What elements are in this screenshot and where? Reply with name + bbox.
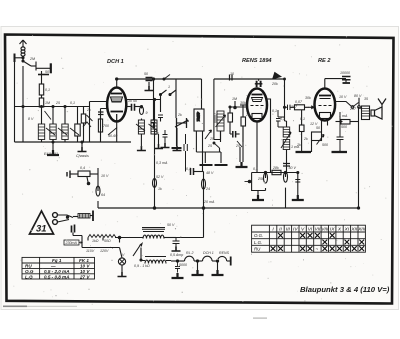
- svg-text:0,1: 0,1: [45, 88, 50, 92]
- svg-text:31: 31: [36, 224, 47, 235]
- svg-text:207: 207: [290, 105, 298, 109]
- svg-text:0,5 Amp: 0,5 Amp: [170, 253, 183, 257]
- svg-text:50Ω: 50Ω: [104, 239, 111, 243]
- svg-text:FK 1: FK 1: [79, 258, 89, 263]
- svg-text:25: 25: [55, 101, 60, 105]
- svg-text:RU: RU: [25, 264, 32, 269]
- svg-text:0,1: 0,1: [253, 167, 258, 171]
- svg-text:0,3 mA: 0,3 mA: [156, 161, 168, 165]
- svg-text:III: III: [286, 227, 291, 233]
- svg-text:Fg 1: Fg 1: [52, 258, 62, 263]
- svg-text:70000: 70000: [214, 113, 218, 123]
- svg-text:DCH 1: DCH 1: [203, 251, 214, 255]
- svg-text:2k: 2k: [177, 113, 182, 117]
- svg-text:500: 500: [322, 143, 328, 147]
- svg-text:25: 25: [207, 144, 212, 148]
- svg-text:0,1: 0,1: [300, 117, 305, 121]
- svg-text:1M: 1M: [232, 97, 237, 101]
- svg-text:50 V: 50 V: [167, 223, 175, 227]
- svg-text:XII: XII: [350, 227, 358, 233]
- svg-text:10: 10: [230, 72, 234, 76]
- svg-text:VII: VII: [314, 227, 321, 233]
- svg-text:0,07: 0,07: [295, 100, 303, 104]
- svg-text:30k: 30k: [240, 101, 246, 105]
- svg-text:8 V: 8 V: [28, 117, 34, 121]
- svg-text:0,1: 0,1: [280, 117, 285, 121]
- svg-text:207: 207: [349, 107, 357, 111]
- svg-text:XIII: XIII: [357, 227, 366, 233]
- svg-text:0,1: 0,1: [186, 167, 191, 171]
- svg-text:Blaupunkt 3 & 4 (110 V=): Blaupunkt 3 & 4 (110 V=): [300, 285, 390, 294]
- svg-text:120V: 120V: [100, 249, 109, 253]
- svg-text:35: 35: [364, 97, 368, 101]
- svg-text:IX: IX: [330, 227, 335, 233]
- svg-text:50: 50: [144, 72, 148, 76]
- svg-text:~: ~: [316, 246, 319, 251]
- svg-text:50: 50: [316, 126, 320, 130]
- svg-text:28k: 28k: [272, 166, 279, 170]
- svg-text:41561: 41561: [196, 112, 200, 122]
- svg-text:52 V: 52 V: [156, 175, 164, 179]
- svg-text:48 V: 48 V: [206, 171, 214, 175]
- svg-text:1k: 1k: [158, 187, 162, 191]
- svg-text:110V: 110V: [86, 249, 95, 253]
- svg-text:25: 25: [209, 137, 214, 141]
- svg-text:20k: 20k: [271, 82, 278, 86]
- svg-text:230mA: 230mA: [65, 241, 78, 245]
- svg-text:0,1: 0,1: [70, 101, 75, 105]
- svg-text:2k: 2k: [86, 108, 91, 112]
- svg-text:10 V: 10 V: [80, 269, 90, 274]
- svg-text:VIII: VIII: [321, 227, 329, 233]
- svg-text:50 V: 50 V: [289, 166, 297, 170]
- svg-text:50: 50: [133, 99, 137, 103]
- svg-text:700: 700: [103, 124, 109, 128]
- svg-text:O.G.: O.G.: [254, 233, 263, 238]
- svg-text:DCH 1: DCH 1: [107, 59, 124, 65]
- svg-text:RU: RU: [254, 246, 261, 251]
- svg-text:500: 500: [341, 125, 347, 129]
- svg-text:50: 50: [45, 70, 49, 74]
- svg-text:20 mA: 20 mA: [203, 200, 215, 204]
- svg-text:10 V: 10 V: [101, 174, 109, 178]
- svg-text:1 mA: 1 mA: [339, 114, 348, 118]
- svg-text:XI: XI: [344, 227, 350, 233]
- svg-text:RE 2: RE 2: [318, 58, 331, 64]
- svg-text:40-60: 40-60: [108, 134, 117, 138]
- svg-text:0,5 - 2,0 mA: 0,5 - 2,0 mA: [44, 269, 70, 274]
- svg-text:25: 25: [235, 144, 240, 148]
- svg-text:0,4: 0,4: [80, 166, 85, 170]
- svg-text:VI: VI: [308, 227, 313, 233]
- svg-text:E/UM 91: E/UM 91: [44, 152, 58, 156]
- svg-text:2k: 2k: [245, 113, 250, 117]
- svg-text:1: 1: [168, 85, 170, 89]
- svg-text:O.G: O.G: [25, 269, 34, 274]
- svg-text:2M: 2M: [29, 57, 35, 61]
- svg-text:64: 64: [101, 193, 105, 197]
- svg-text:RENS 1894: RENS 1894: [242, 58, 272, 64]
- svg-text:IV: IV: [293, 227, 298, 233]
- svg-text:2k: 2k: [303, 137, 308, 141]
- svg-text:10000: 10000: [340, 71, 350, 75]
- svg-text:L.G.: L.G.: [254, 240, 262, 245]
- svg-text:9: 9: [146, 111, 148, 115]
- svg-text:24: 24: [205, 187, 210, 191]
- svg-text:RL 2: RL 2: [186, 251, 194, 255]
- svg-text:25: 25: [154, 132, 159, 136]
- svg-text:0,1: 0,1: [272, 109, 277, 113]
- svg-text:10 V: 10 V: [80, 264, 90, 269]
- svg-text:2k: 2k: [296, 143, 301, 147]
- svg-text:5000: 5000: [179, 263, 187, 267]
- svg-text:30k: 30k: [305, 96, 311, 100]
- svg-text:27 V: 27 V: [79, 274, 90, 279]
- svg-text:L.G: L.G: [25, 274, 33, 279]
- svg-text:80 V: 80 V: [354, 94, 362, 98]
- svg-text:25k: 25k: [257, 177, 264, 181]
- svg-text:1M: 1M: [45, 101, 50, 105]
- svg-text:0,9 - 1 kΩ: 0,9 - 1 kΩ: [134, 264, 150, 268]
- svg-text:10 V: 10 V: [339, 95, 347, 99]
- svg-text:0,5 - 0,8 mA: 0,5 - 0,8 mA: [44, 274, 70, 279]
- svg-text:10: 10: [128, 99, 132, 103]
- svg-text:1kΩ: 1kΩ: [92, 239, 99, 243]
- svg-text:RENS: RENS: [219, 251, 230, 255]
